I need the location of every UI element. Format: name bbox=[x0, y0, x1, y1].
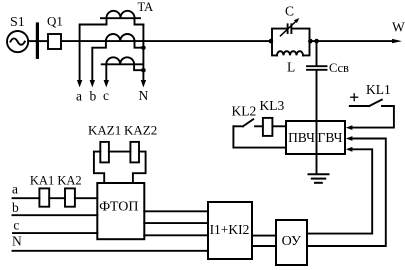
svg-text:I1+KI2: I1+KI2 bbox=[210, 222, 250, 237]
svg-text:KA1 KA2: KA1 KA2 bbox=[30, 174, 82, 188]
svg-text:c: c bbox=[103, 88, 109, 103]
svg-text:TA: TA bbox=[138, 0, 154, 14]
svg-text:ГВЧ: ГВЧ bbox=[318, 130, 343, 145]
svg-text:KAZ1: KAZ1 bbox=[88, 122, 121, 137]
svg-text:KAZ2: KAZ2 bbox=[124, 122, 157, 137]
svg-text:KL1: KL1 bbox=[366, 82, 391, 97]
svg-text:N: N bbox=[12, 234, 22, 249]
svg-text:C: C bbox=[285, 4, 294, 19]
svg-text:a: a bbox=[76, 89, 82, 104]
svg-text:L: L bbox=[287, 60, 295, 75]
svg-text:c: c bbox=[13, 218, 19, 233]
svg-text:KL2: KL2 bbox=[232, 104, 257, 119]
svg-text:ФТОП: ФТОП bbox=[99, 200, 138, 215]
svg-text:b: b bbox=[90, 89, 97, 104]
svg-text:KL3: KL3 bbox=[260, 98, 285, 113]
svg-text:N: N bbox=[139, 88, 149, 103]
svg-text:ПВЧ: ПВЧ bbox=[288, 130, 315, 145]
svg-text:W: W bbox=[392, 20, 405, 35]
svg-text:S1: S1 bbox=[10, 15, 25, 30]
svg-text:a: a bbox=[12, 182, 18, 197]
svg-text:Ссв: Ссв bbox=[329, 61, 349, 75]
svg-text:ОУ: ОУ bbox=[282, 234, 301, 249]
svg-text:Q1: Q1 bbox=[47, 13, 63, 28]
svg-text:b: b bbox=[12, 200, 19, 215]
